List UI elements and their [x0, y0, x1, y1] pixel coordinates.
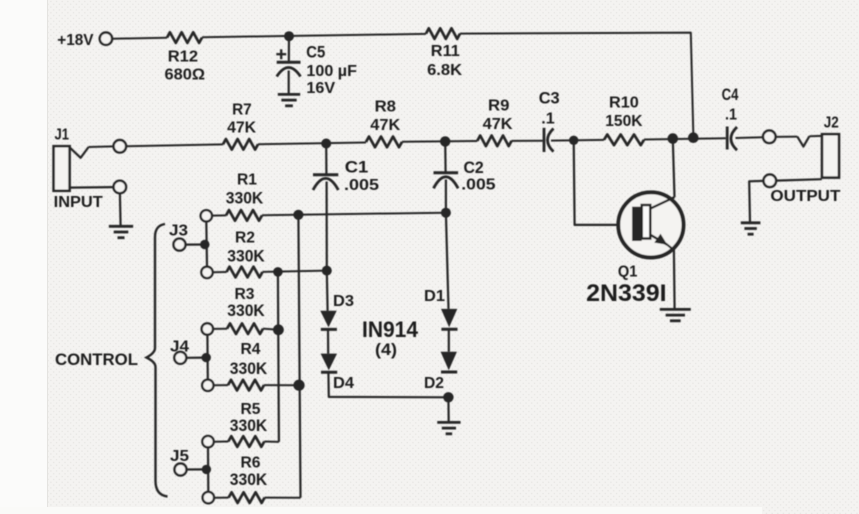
- svg-text:(4): (4): [375, 341, 397, 359]
- svg-text:.005: .005: [344, 177, 379, 194]
- svg-text:C2: C2: [463, 159, 483, 177]
- svg-text:C1: C1: [345, 158, 369, 176]
- terminal R1 left: [201, 210, 212, 221]
- wire: [262, 213, 446, 216]
- wire: [119, 193, 122, 226]
- svg-text:C5: C5: [306, 44, 325, 62]
- svg-text:R6: R6: [241, 454, 261, 471]
- capacitor C1: [313, 173, 338, 176]
- wire: [213, 271, 227, 273]
- wire: [776, 136, 798, 138]
- terminal R6 left: [203, 492, 214, 503]
- connector J3: [174, 239, 186, 251]
- diode D2: [441, 352, 457, 371]
- svg-text:INPUT: INPUT: [54, 194, 103, 211]
- svg-text:J1: J1: [55, 126, 70, 143]
- wire: [325, 144, 327, 175]
- wire: [214, 384, 229, 386]
- svg-text:D3: D3: [333, 293, 354, 310]
- connector J4: [174, 352, 186, 364]
- wire: [112, 38, 167, 39]
- junction node C5-top: [284, 31, 294, 41]
- wire: [512, 140, 543, 142]
- ground: [437, 421, 460, 424]
- wire: [202, 34, 426, 37]
- capacitor C5: [277, 61, 301, 64]
- junction node supply-drop: [688, 132, 699, 143]
- svg-text:R3: R3: [235, 286, 255, 303]
- terminal J1 ring: [114, 181, 127, 194]
- resistor R5: [228, 436, 264, 447]
- brace CONTROL group: [147, 224, 168, 497]
- capacitor C2: [434, 171, 459, 174]
- svg-text:R10: R10: [609, 95, 639, 112]
- svg-text:16V: 16V: [306, 80, 335, 97]
- transistor Q1: [618, 192, 683, 257]
- wire: [736, 136, 764, 139]
- wire: [186, 357, 206, 359]
- svg-text:R11: R11: [431, 43, 460, 60]
- svg-text:CONTROL: CONTROL: [55, 351, 138, 369]
- resistor R7: [223, 139, 258, 150]
- ground: [278, 93, 300, 96]
- wire: [644, 138, 726, 139]
- wire: [402, 140, 477, 143]
- wire: [809, 135, 822, 137]
- svg-text:D2: D2: [424, 375, 444, 392]
- capacitor C4: [726, 127, 729, 150]
- svg-text:Q1: Q1: [618, 264, 638, 281]
- wire: [551, 139, 604, 142]
- wire: [263, 329, 278, 330]
- svg-text:330K: 330K: [227, 247, 265, 265]
- svg-text:.005: .005: [461, 177, 495, 194]
- junction node R3-right: [273, 324, 284, 335]
- resistor R8: [366, 137, 402, 148]
- wire: [776, 179, 822, 180]
- terminal R2 left: [201, 267, 212, 278]
- wire: [187, 468, 207, 470]
- resistor R10: [604, 135, 644, 146]
- svg-text:.1: .1: [541, 111, 555, 128]
- svg-text:330K: 330K: [230, 360, 268, 378]
- wire: [446, 213, 449, 309]
- connector J1: [54, 146, 70, 191]
- junction node C2-top: [440, 136, 450, 146]
- junction node J5: [202, 465, 211, 474]
- diode D3: [320, 311, 336, 328]
- connector J2: [822, 134, 839, 177]
- ground: [741, 221, 761, 224]
- svg-text:R1: R1: [237, 171, 257, 188]
- resistor R2: [227, 267, 263, 278]
- resistor R4: [228, 380, 264, 391]
- svg-text:R9: R9: [488, 98, 510, 115]
- wire: [288, 36, 290, 62]
- wire: [89, 145, 114, 148]
- terminal J1 tip: [114, 140, 127, 153]
- wire: [447, 397, 450, 422]
- wire: [673, 139, 675, 198]
- svg-text:OUTPUT: OUTPUT: [770, 188, 840, 205]
- wire: [264, 441, 279, 443]
- svg-text:D4: D4: [333, 375, 354, 392]
- wire: [258, 143, 366, 145]
- svg-text:J3: J3: [169, 222, 188, 239]
- junction node D2-bottom: [443, 392, 453, 402]
- wire: [667, 245, 674, 310]
- wire tip contact: [70, 147, 89, 158]
- resistor R12: [167, 32, 202, 43]
- terminal J2 tip: [763, 131, 776, 144]
- connector J5: [175, 464, 187, 476]
- junction node D1-line top: [441, 208, 451, 218]
- svg-text:R5: R5: [241, 401, 261, 418]
- ground: [109, 225, 133, 228]
- diode D4: [321, 354, 337, 371]
- terminal R3 left: [202, 323, 213, 334]
- svg-text:R2: R2: [235, 229, 255, 246]
- wire: [328, 372, 448, 397]
- resistor R11: [426, 28, 460, 39]
- wire: [126, 144, 223, 146]
- junction node D3-line: [322, 266, 332, 276]
- wire: [327, 329, 329, 353]
- wire: [214, 441, 229, 443]
- svg-text:R12: R12: [168, 49, 198, 66]
- resistor R1: [226, 210, 262, 221]
- wire: [205, 222, 208, 267]
- svg-text:330K: 330K: [230, 471, 268, 489]
- svg-text:150K: 150K: [605, 113, 643, 130]
- svg-text:R8: R8: [375, 99, 397, 116]
- svg-text:J5: J5: [170, 448, 189, 465]
- svg-text:2N339I: 2N339I: [586, 280, 666, 307]
- terminal R5 left: [202, 436, 213, 447]
- wire: [186, 243, 205, 245]
- diode D1: [441, 309, 457, 327]
- wire: [214, 497, 229, 499]
- wire: [574, 140, 633, 225]
- svg-text:R4: R4: [241, 341, 261, 358]
- wire: [212, 214, 226, 216]
- wire: [326, 182, 328, 271]
- wire tip contact J2: [797, 136, 809, 146]
- svg-text:680Ω: 680Ω: [165, 67, 206, 84]
- svg-text:100 µF: 100 µF: [306, 63, 357, 80]
- svg-text:D1: D1: [424, 288, 445, 305]
- capacitor C3: [543, 128, 546, 152]
- wire bus A: [278, 272, 279, 442]
- svg-text:47K: 47K: [227, 120, 256, 137]
- svg-text:J2: J2: [824, 115, 839, 132]
- wire: [749, 181, 763, 223]
- wire: [288, 71, 290, 95]
- resistor R9: [477, 136, 511, 147]
- junction node J3: [200, 240, 209, 249]
- wire: [206, 335, 209, 380]
- junction node C1-top: [321, 139, 331, 149]
- junction node A-top: [273, 267, 283, 277]
- wire: [444, 141, 447, 172]
- junction node base-drop: [569, 136, 578, 145]
- svg-text:6.8K: 6.8K: [427, 62, 462, 79]
- terminal +18V: [100, 33, 112, 45]
- svg-text:330K: 330K: [226, 189, 264, 207]
- wire: [70, 186, 114, 189]
- wire bus B: [298, 215, 300, 498]
- ground: [660, 308, 691, 311]
- wire: [326, 271, 329, 311]
- svg-text:330K: 330K: [230, 417, 268, 435]
- wire: [265, 497, 301, 499]
- svg-text:.1: .1: [725, 107, 737, 124]
- svg-text:47K: 47K: [483, 116, 513, 133]
- wire: [460, 33, 693, 138]
- terminal R4 left: [202, 380, 213, 391]
- wire: [264, 384, 299, 386]
- resistor R3: [227, 323, 263, 334]
- wire: [263, 271, 327, 272]
- wire: [448, 329, 450, 352]
- junction node R4-right: [293, 380, 304, 391]
- terminal J2 ring: [764, 175, 777, 188]
- resistor R6: [229, 492, 265, 503]
- junction node collector-drop: [668, 133, 679, 144]
- wire: [207, 447, 210, 492]
- wire: [445, 180, 447, 213]
- svg-text:IN914: IN914: [362, 317, 419, 342]
- svg-text:+18V: +18V: [57, 32, 94, 49]
- svg-text:C4: C4: [722, 86, 739, 104]
- svg-text:C3: C3: [539, 89, 560, 107]
- junction node B-top: [293, 210, 303, 220]
- junction node J4: [202, 353, 211, 362]
- svg-text:330K: 330K: [227, 302, 265, 320]
- wire: [213, 328, 227, 330]
- svg-text:47K: 47K: [370, 117, 400, 134]
- svg-text:R7: R7: [232, 102, 252, 119]
